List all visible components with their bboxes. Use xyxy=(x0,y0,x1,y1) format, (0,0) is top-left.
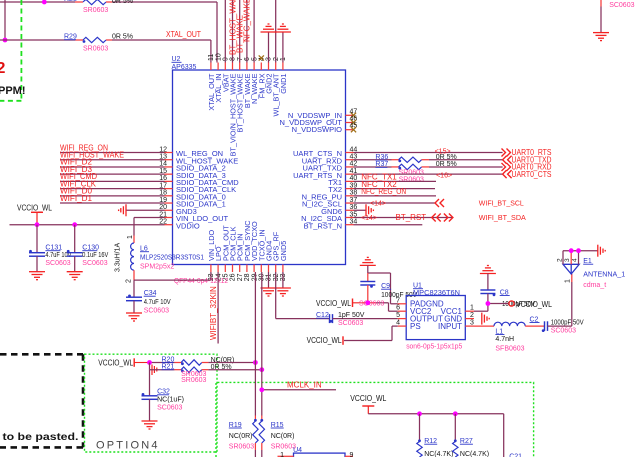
U2 right pin 41 UART_RTS_N xyxy=(293,168,357,180)
ground top right xyxy=(593,33,609,41)
wire WIFI_HOST_WAKE xyxy=(60,159,165,161)
green dashed region border xyxy=(0,0,21,101)
designator R19 xyxy=(229,422,242,429)
U2 bottom pin 33 GND5 xyxy=(279,241,288,282)
svg-text:NC(1uF): NC(1uF) xyxy=(157,397,184,404)
U2 right pin 40 TX1 xyxy=(328,175,357,187)
svg-text:WIFI_BT_SCL: WIFI_BT_SCL xyxy=(479,199,524,208)
svg-text:1: 1 xyxy=(127,235,134,239)
svg-text:<14>: <14> xyxy=(361,215,377,222)
junction dot antenna pin 3 xyxy=(569,248,574,253)
svg-text:45: 45 xyxy=(350,123,358,130)
wire N_WAKE to top edge xyxy=(253,0,255,63)
U2 left pin 21 VIN_LDO_OUT xyxy=(159,211,228,223)
svg-text:BT_RST_N: BT_RST_N xyxy=(304,221,342,230)
svg-text:6: 6 xyxy=(396,305,400,312)
designator R36 xyxy=(375,154,388,161)
wire PS pin 4 to VCCIO_WL xyxy=(344,326,398,340)
svg-text:VCCIO_WL: VCCIO_WL xyxy=(316,299,351,308)
U2 right pin 45 N_VDDSWPIO xyxy=(292,123,358,135)
resistor R29 xyxy=(64,34,112,43)
svg-text:SC0603: SC0603 xyxy=(144,308,169,315)
svg-text:NFC_WAKE: NFC_WAKE xyxy=(243,0,252,42)
wire L1 to C2 xyxy=(525,325,544,327)
svg-text:27: 27 xyxy=(237,273,244,281)
designator R27 xyxy=(460,438,473,445)
U2 bottom pin 25 PCM_OUT xyxy=(221,225,230,282)
wire BT_WAKE xyxy=(239,0,241,63)
ground (inverted) at pin 3 xyxy=(261,24,277,32)
ground (inverted) at pin 1 xyxy=(275,24,291,32)
wire N_REG_PU row 38 xyxy=(354,195,437,197)
U2 top pin 4 FM_RX xyxy=(257,57,266,98)
wire VIN_LDO_OUT pin 21 to L6 xyxy=(134,217,165,235)
U2 right pin 47 N_VDDSWP_IN xyxy=(288,108,358,120)
arrow in UART0_CTS xyxy=(503,170,512,178)
svg-text:MCLK_IN: MCLK_IN xyxy=(287,381,322,390)
wire R20 to VDD_TCXO net xyxy=(208,362,255,364)
U2 right pin 44 UART_CTS_N xyxy=(293,146,357,158)
svg-text:SC0603: SC0603 xyxy=(338,320,363,327)
svg-text:PS: PS xyxy=(410,322,421,331)
svg-text:3.3uH/1A: 3.3uH/1A xyxy=(115,242,122,272)
svg-text:NFC_REG_ON: NFC_REG_ON xyxy=(361,187,406,196)
junction dot OPTION4 xyxy=(147,360,152,365)
wire antenna top to ground xyxy=(563,250,598,252)
wire WL_BT_ANT to top edge xyxy=(275,0,277,63)
resistor R28 xyxy=(64,0,112,5)
U2 bottom pin 24 LPO xyxy=(214,246,223,281)
junction dot C130 tap xyxy=(72,222,77,227)
U2 left pin 15 SDIO_DATA_3 xyxy=(159,168,226,180)
wire WIFI_CLK xyxy=(60,188,165,190)
U2 right pin 36 GND6 xyxy=(321,204,357,216)
svg-text:46: 46 xyxy=(350,116,358,123)
U4 pin 1 xyxy=(278,452,294,457)
U1 right pin 1 VCC1 xyxy=(441,305,474,316)
svg-text:2: 2 xyxy=(557,258,564,262)
svg-text:2: 2 xyxy=(470,312,474,319)
svg-text:WIFI_D1: WIFI_D1 xyxy=(60,194,93,203)
wire UART_RXD row 43 xyxy=(354,159,503,161)
U2 bottom pin 26 PCM_CLK xyxy=(229,226,238,281)
inductor L1 xyxy=(494,322,525,326)
designator C2 xyxy=(530,316,540,323)
svg-text:1: 1 xyxy=(280,452,284,457)
ground (sideways) GND3 pin 20 xyxy=(119,204,165,216)
svg-text:OPTION4: OPTION4 xyxy=(96,440,160,452)
svg-text:0R 5%: 0R 5% xyxy=(112,34,133,41)
black dashed paste region xyxy=(0,354,83,447)
green dotted region 2 border xyxy=(216,382,534,457)
svg-text:8: 8 xyxy=(230,57,237,61)
IC U4 body xyxy=(294,453,346,457)
resistor R36 xyxy=(392,157,430,162)
ground (sideways) right of antenna xyxy=(598,245,605,257)
junction dot R20 net xyxy=(253,360,258,365)
svg-text:AP6335: AP6335 xyxy=(172,64,197,71)
wire C2 to antenna xyxy=(548,282,572,326)
wire GND1 to ground xyxy=(282,32,284,63)
power symbol VCCIO_WL xyxy=(17,203,52,224)
ground below C131 xyxy=(29,272,45,280)
U2 bottom pin 30 TCXO_IN xyxy=(257,229,266,281)
svg-text:11: 11 xyxy=(208,54,215,61)
U2 top pin 3 GND2 xyxy=(265,57,274,94)
svg-text:QFP44-0p4-12x12: QFP44-0p4-12x12 xyxy=(174,278,228,285)
designator C131 xyxy=(45,245,62,252)
wire VBAT to top edge xyxy=(224,0,226,63)
capacitor C131 xyxy=(29,225,45,272)
U1 left pin 6 VCC2 xyxy=(396,305,432,316)
wire XTAL_OUT net xyxy=(0,40,211,63)
designator E1 xyxy=(583,258,593,265)
green dotted OPTION4 box xyxy=(85,354,218,452)
power symbol VCCIO_WL at U1 VCC2 xyxy=(316,299,353,309)
wire XTAL_IN net top xyxy=(0,2,217,63)
svg-text:U4: U4 xyxy=(293,447,302,454)
wire LPO pin 24 WIFIBT_32KIN xyxy=(217,272,219,344)
arrow out UART0_RXD xyxy=(502,163,511,171)
wire VCCIO_WL to U1 pin 6 xyxy=(353,303,398,311)
svg-text:NC(0R): NC(0R) xyxy=(229,433,253,440)
junction dot C8 net xyxy=(486,301,491,306)
designator L1 xyxy=(495,328,504,335)
U2 left pin 22 VDDIO xyxy=(159,219,200,231)
U2 right pin 39 TX2 xyxy=(328,182,357,194)
wire R21 to TCXO_IN net xyxy=(208,369,261,371)
resistor R12 xyxy=(417,414,422,457)
capacitor C32 xyxy=(142,370,158,421)
junction dot R12 tap xyxy=(417,411,422,416)
no-ERC marker bars xyxy=(152,365,157,376)
wire UART_RTS_N row 41 xyxy=(354,173,503,175)
svg-text:SC0603: SC0603 xyxy=(82,260,107,267)
svg-text:3: 3 xyxy=(564,258,571,262)
U2 top pin 8 BT_VIO/N_HOST_WAKE xyxy=(229,57,238,156)
svg-text:NC(4.7K): NC(4.7K) xyxy=(424,451,453,457)
arrow in UART0_TXD xyxy=(503,156,512,164)
svg-text:2: 2 xyxy=(125,279,132,283)
wire NFC_WAKE xyxy=(246,0,248,63)
designator C8 xyxy=(500,289,510,296)
ground (inverted) above C9 xyxy=(360,257,376,265)
svg-text:R28: R28 xyxy=(64,0,77,3)
U2 bottom pin 32 GPS_RF xyxy=(272,231,281,281)
svg-text:VDDIO: VDDIO xyxy=(176,221,200,230)
junction dot xyxy=(42,0,47,4)
antenna E1 symbol xyxy=(563,264,579,274)
capacitor C12 xyxy=(329,314,397,323)
ground below C34 xyxy=(126,313,142,321)
svg-text:INPUT: INPUT xyxy=(438,322,462,331)
svg-text:SR0603: SR0603 xyxy=(229,443,254,450)
wire TCXO_IN pin 30 vertical xyxy=(261,272,263,416)
svg-text:VCCIO_WL: VCCIO_WL xyxy=(17,203,52,212)
U4 pin 9 xyxy=(345,452,354,457)
junction dot R27 tap xyxy=(453,411,458,416)
svg-text:28: 28 xyxy=(244,273,251,281)
U2 left pin 19 SDIO_DATA_1 xyxy=(159,197,226,209)
U2 top pin 6 BT_WAKE xyxy=(243,57,252,108)
designator C12 xyxy=(316,312,329,319)
wire UART_TXD row 42 xyxy=(354,166,503,168)
wire WIFI_CMD xyxy=(60,180,165,182)
IC U1 MPC8236T6N body xyxy=(406,296,465,340)
designator U2 xyxy=(172,56,182,63)
designator C34 xyxy=(144,290,157,297)
arrow pair WIFI_BT_SDA xyxy=(432,213,441,221)
svg-text:4: 4 xyxy=(572,258,579,262)
svg-text:son6-0p5-1p5x1p5: son6-0p5-1p5x1p5 xyxy=(406,344,462,351)
wire UART_CTS_N row 44 xyxy=(354,152,503,154)
U2 right pin 46 N_VDDSWP_OUT xyxy=(279,116,357,128)
svg-text:VCCIO_WL: VCCIO_WL xyxy=(98,359,133,368)
svg-text:7: 7 xyxy=(237,57,244,61)
U2 top pin 2 WL_BT_ANT xyxy=(272,57,281,116)
svg-text:1000pF 50V: 1000pF 50V xyxy=(551,320,584,327)
svg-text:ANTENNA_1: ANTENNA_1 xyxy=(583,270,625,279)
svg-text:SR0603: SR0603 xyxy=(181,377,206,384)
ground below C32 xyxy=(142,421,158,429)
wire GND4 pin 31 to ground xyxy=(268,272,270,288)
U2 right pin 38 N_REG_PU xyxy=(302,190,358,202)
svg-text:SFB0603: SFB0603 xyxy=(495,345,524,352)
wire VCCIO to R20 R21 xyxy=(134,362,174,364)
U2 bottom pin 29 VDD_TCXO xyxy=(250,221,259,281)
wire GND6 row 36 xyxy=(354,209,367,211)
svg-text:SC0603: SC0603 xyxy=(609,2,634,9)
svg-text:PPM!: PPM! xyxy=(0,85,26,97)
arrow out UART0_RTS xyxy=(502,149,511,157)
wire C8 to VCC1 and power tap xyxy=(474,304,509,312)
U2 right pin 43 UART_RXD xyxy=(302,154,358,166)
designator R20 xyxy=(162,356,175,363)
svg-text:NC(0R): NC(0R) xyxy=(271,433,295,440)
resistor R19 xyxy=(253,416,258,457)
U2 left pin 13 WL_HOST_WAKE xyxy=(159,154,238,166)
wire VDD_TCXO pin 29 vertical xyxy=(254,272,256,416)
wire N_I2C_SDA row 35 xyxy=(354,216,453,218)
svg-text:33: 33 xyxy=(280,273,287,281)
wire L6 bottom to VIN_LDO pin 23 xyxy=(134,272,211,280)
svg-text:31: 31 xyxy=(266,273,273,281)
capacitor C9 xyxy=(360,273,375,303)
svg-text:MPC8236T6N: MPC8236T6N xyxy=(413,290,460,297)
ground below pin 31 xyxy=(261,288,277,296)
U2 bottom pin 23 VIN_LDO xyxy=(207,229,216,281)
svg-text:SR0603: SR0603 xyxy=(399,176,424,183)
capacitor C130 xyxy=(67,225,83,272)
svg-text:SC0603: SC0603 xyxy=(157,404,182,411)
wire TX1 row 40 xyxy=(354,180,437,182)
ground below C130 xyxy=(67,272,83,280)
junction dot C9 bottom xyxy=(365,300,370,305)
svg-text:XTAL_OUT: XTAL_OUT xyxy=(166,30,201,39)
U2 right pin 42 UART_TXD xyxy=(303,161,358,173)
svg-text:0R 5%: 0R 5% xyxy=(436,161,457,168)
wire WIFI_D2 xyxy=(60,166,165,168)
wire TX2 row 39 xyxy=(354,188,436,190)
U2 top pin 1 GND1 xyxy=(279,57,288,94)
svg-text:4.7nH: 4.7nH xyxy=(495,336,514,343)
wire BT_HOST_WAKE xyxy=(232,0,234,63)
U2 right pin 34 BT_RST_N xyxy=(304,219,358,231)
svg-text:10: 10 xyxy=(215,53,222,61)
U2 bottom pin 31 GND4 xyxy=(265,241,274,282)
svg-text:SR0603: SR0603 xyxy=(83,7,108,14)
U2 right pin 35 N_I2C_SDA xyxy=(301,211,357,223)
svg-text:UART0_CTS: UART0_CTS xyxy=(512,170,552,179)
svg-text:cdma_t: cdma_t xyxy=(583,282,606,289)
wire WIFI_D0 xyxy=(60,195,165,197)
wire WIFI_D1 xyxy=(60,202,165,204)
wire INPUT pin 3 to L1 xyxy=(474,325,494,327)
capacitor C8 xyxy=(480,274,495,304)
wire WIFI_REG_ON xyxy=(60,152,165,154)
resistor R20 xyxy=(175,360,209,365)
svg-text:WIFI_BT_SDA: WIFI_BT_SDA xyxy=(479,213,526,222)
inductor L6 xyxy=(125,235,134,283)
svg-text:<16>: <16> xyxy=(436,173,452,180)
ground (inverted) above C8 xyxy=(480,266,496,274)
svg-text:9: 9 xyxy=(223,57,230,61)
svg-text:4.7uF 10V: 4.7uF 10V xyxy=(144,299,171,306)
svg-text:SPM2p5x2: SPM2p5x2 xyxy=(140,264,174,271)
svg-text:SC0603: SC0603 xyxy=(45,260,70,267)
U2 left pin 20 GND3 xyxy=(159,204,197,216)
svg-text:VCCIO_WL: VCCIO_WL xyxy=(307,336,342,345)
svg-text:1: 1 xyxy=(470,305,474,312)
wire stub from top edge xyxy=(43,0,45,3)
U2 bottom pin 27 PCM_IN xyxy=(236,233,245,281)
resistor R21 xyxy=(175,367,209,372)
svg-text:1: 1 xyxy=(565,279,572,283)
svg-text:32: 32 xyxy=(273,273,280,281)
designator L6 xyxy=(140,246,149,253)
wire VCCIO rail bottom xyxy=(368,414,503,457)
op IC U2 AP6335 body xyxy=(173,70,346,265)
power symbol VCCIO_WL at PS xyxy=(307,336,343,345)
svg-text:SC0603: SC0603 xyxy=(359,301,384,308)
U1 left pin 7 PADGND xyxy=(396,297,444,308)
U2 top pin 5 N_WAKE xyxy=(250,57,259,104)
U2 top pin 9 VBAT xyxy=(221,57,230,92)
svg-text:<14>: <14> xyxy=(370,201,386,208)
U1 right pin 2 GND xyxy=(444,312,474,323)
junction dot xyxy=(3,38,8,43)
svg-text:26: 26 xyxy=(230,273,237,281)
wire from top cap (off sheet) xyxy=(600,0,602,33)
antenna pins 2 3 4 xyxy=(557,251,579,265)
wire vertical at left edge xyxy=(4,0,6,40)
svg-text:N_VDDSWPIO: N_VDDSWPIO xyxy=(292,125,343,134)
U2 left pin 16 SDIO_DATA_CMD xyxy=(159,175,239,187)
svg-text:MLP2520S3R3ST0S1: MLP2520S3R3ST0S1 xyxy=(140,255,204,262)
U2 bottom pin 28 PCM_SYNC xyxy=(243,220,252,281)
ground (sideways) GND6 xyxy=(366,204,373,216)
wire MCLK_IN xyxy=(262,389,336,391)
svg-text:3: 3 xyxy=(470,320,474,327)
svg-text:2: 2 xyxy=(273,57,280,61)
designator R21 xyxy=(162,364,175,371)
svg-text:NC(4.7K): NC(4.7K) xyxy=(460,451,489,457)
U2 left pin 17 SDIO_DATA_CLK xyxy=(159,182,236,194)
U2 left pin 18 SDIO_DATA_0 xyxy=(159,190,226,202)
designator C32 xyxy=(157,389,170,396)
junction dot antenna pin 4 xyxy=(576,248,581,253)
svg-text:VCCIO_WL: VCCIO_WL xyxy=(516,300,552,309)
wire N_I2C_SCL row 37 xyxy=(354,202,436,204)
svg-text:3: 3 xyxy=(266,57,273,61)
svg-text:47: 47 xyxy=(350,108,358,115)
svg-text:2: 2 xyxy=(0,60,6,77)
designator R37 xyxy=(375,161,388,168)
resistor R27 xyxy=(453,414,458,457)
svg-text:SR0603: SR0603 xyxy=(83,46,108,53)
svg-text:1: 1 xyxy=(280,57,287,61)
svg-text:0R 5%: 0R 5% xyxy=(112,0,133,5)
wire VDDIO rail xyxy=(10,224,165,226)
wire ground to C9 and PADGND xyxy=(368,265,398,303)
U2 right pin 37 N_I2C_SCL xyxy=(302,197,357,209)
wire GPS_RF pin 32 to C12 xyxy=(276,272,330,319)
designator R15 xyxy=(271,422,284,429)
svg-text:0.1uF 16V: 0.1uF 16V xyxy=(82,252,108,259)
U2 left pin 14 SDIO_DATA_2 xyxy=(159,161,226,173)
U2 top pin 11 XTAL_OUT xyxy=(207,54,216,111)
U1 right pin 3 INPUT xyxy=(438,320,474,331)
wire WIFI_D3 xyxy=(60,173,165,175)
designator U1 xyxy=(413,283,423,290)
svg-text:WIFIBT_32KIN: WIFIBT_32KIN xyxy=(209,286,218,340)
resistor R15 xyxy=(259,416,264,457)
arrow in WIFI_BT_SCL xyxy=(435,199,444,207)
power symbol VCCIO_WL OPTION4 xyxy=(98,358,134,367)
wire BT_RST_N row 34 xyxy=(354,224,423,226)
ground below pin 33 xyxy=(275,288,291,296)
svg-text:9: 9 xyxy=(350,452,354,457)
power symbol VCCIO_WL bottom right xyxy=(350,394,386,414)
U2 top pin 7 BT_HOST_WAKE xyxy=(236,57,245,132)
U1 left pin 5 OUTPUT xyxy=(396,312,443,323)
wire GND5 pin 33 to ground xyxy=(282,272,284,288)
power symbol VCCIO_WL (circle) xyxy=(509,301,514,306)
ground (sideways) at U1 GND pin 2 xyxy=(482,313,489,325)
U2 left pin 12 WL_REG_ON xyxy=(159,146,223,158)
antenna E1 pin 1 xyxy=(565,274,572,283)
junction dot MCLK_IN xyxy=(259,387,264,392)
designator R12 xyxy=(424,438,437,445)
svg-text:GND1: GND1 xyxy=(279,74,288,94)
wire VCCIO down to R21 xyxy=(150,363,175,370)
designator C9 xyxy=(381,283,391,290)
svg-text:to be pasted.: to be pasted. xyxy=(3,432,79,443)
designator C130 xyxy=(82,245,99,252)
svg-text:C21: C21 xyxy=(509,454,522,457)
junction dot C131 tap xyxy=(35,222,40,227)
capacitor C34 xyxy=(126,280,142,313)
svg-text:5: 5 xyxy=(251,57,258,61)
capacitor C2 xyxy=(542,321,548,332)
junction dot R21 net xyxy=(259,367,264,372)
svg-text:0R 5%: 0R 5% xyxy=(436,154,457,161)
U1 left pin 4 PS xyxy=(396,320,421,331)
wire GND2 to ground xyxy=(268,32,270,63)
svg-text:BT_RST: BT_RST xyxy=(396,213,427,222)
U2 top pin 10 XTAL_IN xyxy=(214,53,223,102)
svg-text:7: 7 xyxy=(396,297,400,304)
